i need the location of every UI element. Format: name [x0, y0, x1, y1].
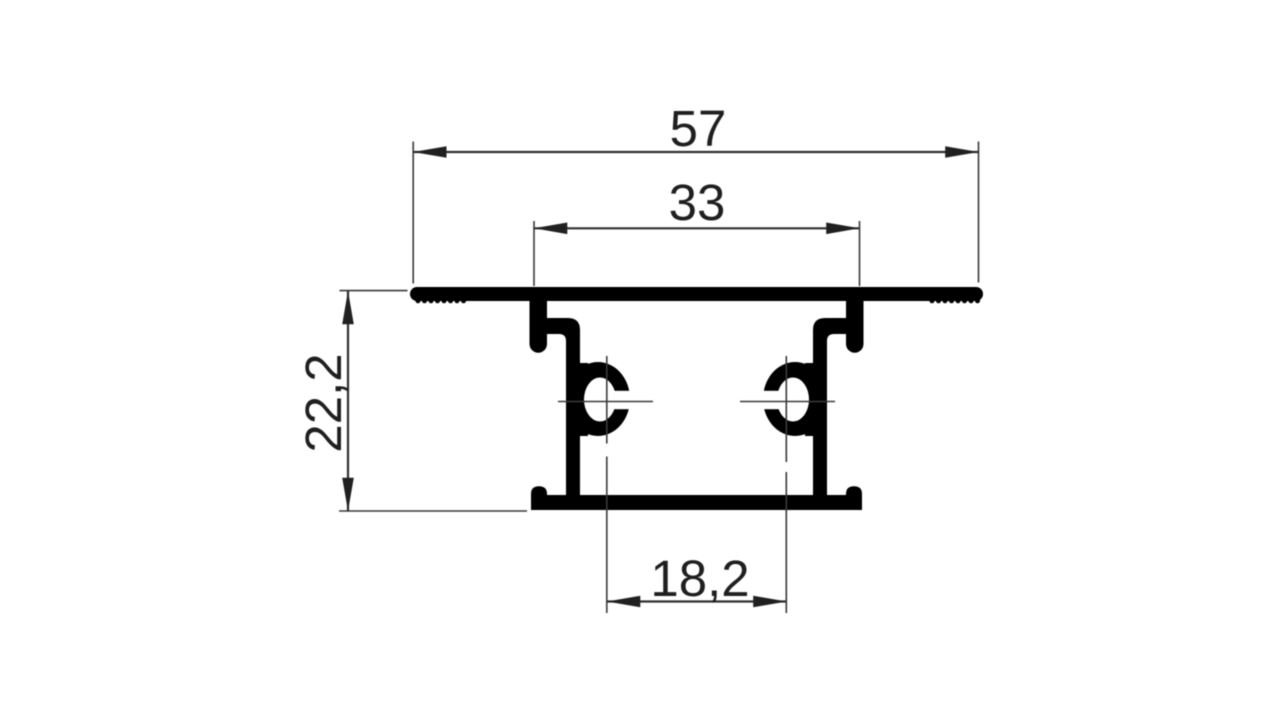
dimension 33 line — [534, 227, 860, 229]
dimension 22,2 line — [347, 291, 349, 511]
svg-text:33: 33 — [669, 174, 726, 231]
serration right — [929, 298, 980, 303]
left screw boss — [566, 362, 642, 436]
left hanger bar — [530, 298, 548, 353]
dimension 57 line — [413, 151, 978, 153]
dimension 57 extension lines — [413, 142, 978, 284]
right screw boss — [751, 362, 827, 436]
dimension 18,2 line — [607, 600, 787, 602]
dimension 22,2 extension lines — [339, 291, 527, 511]
dimension 33 arrows — [534, 223, 860, 235]
bottom flange — [531, 486, 862, 510]
centerline left boss vertical — [606, 356, 608, 613]
serration left — [415, 298, 466, 303]
dimension 33 extension lines — [534, 221, 860, 286]
centerline right boss vertical — [785, 356, 787, 613]
dimension 57 arrows — [413, 146, 978, 158]
svg-text:57: 57 — [670, 100, 727, 157]
top flange — [410, 287, 983, 301]
dimension 22,2 arrows — [342, 291, 354, 511]
svg-text:18,2: 18,2 — [650, 550, 749, 607]
right arm and wall — [813, 318, 846, 496]
centerline right boss horizontal — [740, 401, 835, 403]
centerline left boss horizontal — [558, 401, 653, 403]
left arm and wall — [547, 318, 580, 496]
dimension 18,2 arrows — [607, 596, 787, 608]
right hanger bar — [846, 298, 864, 353]
svg-text:22,2: 22,2 — [295, 353, 352, 452]
